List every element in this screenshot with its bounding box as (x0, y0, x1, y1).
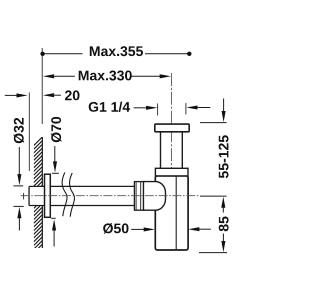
dimension Max.355 dot right (187, 52, 191, 56)
dimension Max.330 line right (131, 75, 160, 77)
extension line wall face (41, 48, 43, 124)
trap inlet pipe left edge (160, 132, 162, 169)
dimension Ø70 label (51, 117, 62, 142)
dimension Ø70 tick top (52, 172, 59, 174)
dimension 20 arrow right (43, 93, 54, 97)
dimension Ø50 leader line left (131, 228, 144, 230)
dimension Ø32 tick bottom (13, 205, 23, 207)
dimension 20 line left tail (5, 94, 17, 96)
dimension Max.355 line right (145, 53, 190, 55)
wall hatching strokes (34, 137, 43, 257)
dimension 85 top arrow (221, 197, 225, 208)
dimension Max.355 dot left (40, 52, 44, 56)
tube stub end cap (28, 187, 30, 206)
dimension Max.355 label (90, 46, 143, 56)
tube top edge (50, 185, 134, 187)
wall tube bottom edge (29, 205, 45, 207)
horizontal centerline of tube (21, 195, 199, 197)
wall flange plate (45, 174, 51, 217)
dimension Max.330 arrow left (43, 74, 54, 78)
pipe break mark left (62, 173, 67, 217)
wall face line lower (41, 206, 43, 249)
trap inlet pipe right edge (181, 132, 183, 169)
dimension G1 1/4 leader line right (195, 107, 210, 109)
dimension 85 bottom line (222, 234, 224, 244)
centerline start tick (23, 193, 25, 200)
dimension 55-125 top leader (223, 99, 225, 114)
dimension Ø50 leader line right (197, 228, 211, 230)
reference line flange top level (200, 122, 227, 124)
dimension Ø50 arrow right (188, 227, 199, 231)
tube compression nut (134, 182, 143, 211)
dimension 85 label (219, 217, 229, 232)
tube nut inner line a (135, 182, 137, 211)
dimension Ø32 lower arrow (17, 207, 21, 218)
extension line tube end (28, 93, 30, 172)
dimension G1 1/4 leader line left (134, 107, 147, 109)
dimension Ø32 lower line (18, 218, 20, 231)
dimension 55-125 label (219, 135, 229, 178)
dimension Ø32 upper arrow (17, 174, 21, 185)
dimension G1 1/4 arrow right (186, 105, 197, 109)
trap flange cap (155, 124, 189, 132)
tube nut inner line b (140, 182, 142, 211)
dimension Ø70 tick bottom (51, 217, 56, 219)
tube bottom edge (50, 205, 134, 207)
dimension 20 label (65, 90, 80, 100)
dimension G1 1/4 label (89, 102, 130, 112)
dimension 20 line right (52, 94, 61, 96)
inlet boss dome (143, 182, 165, 211)
dimension 85 bottom arrow (221, 241, 225, 252)
dimension Ø32 tick top (13, 185, 23, 187)
dimension 85 top line (222, 207, 224, 213)
dimension Ø70 lower arrow (52, 219, 56, 230)
dimension G1 1/4 arrow left (146, 106, 157, 110)
pipe break mark right (70, 173, 75, 217)
dimension Ø70 upper line (54, 146, 56, 163)
dimension Max.330 line left (52, 75, 75, 77)
vertical centerline of trap (170, 73, 172, 247)
trap body inner line (175, 177, 177, 250)
dimension G1 1/4 extension line left (157, 104, 159, 116)
dimension Ø70 lower line (53, 230, 55, 247)
dimension Max.330 arrow right (160, 74, 171, 78)
dimension Max.355 line left (42, 53, 82, 55)
dimension Ø70 upper arrow (53, 161, 57, 172)
wall face line upper (41, 137, 43, 186)
dimension 55-125 top arrow (222, 111, 226, 122)
trap nut band (155, 168, 188, 176)
dimension 20 arrow left (17, 93, 28, 97)
dimension G1 1/4 extension line right (185, 103, 187, 115)
reference line trap bottom level (199, 252, 227, 254)
wall tube top edge (29, 185, 45, 187)
dimension Ø32 label (14, 118, 25, 143)
dimension Ø50 arrow left (144, 227, 155, 231)
reference line pipe axis level (200, 195, 227, 197)
dimension Ø32 upper line (18, 147, 20, 175)
dimension Max.330 label (79, 71, 132, 81)
dimension Ø50 label (103, 223, 128, 234)
trap body cylinder (155, 176, 188, 250)
